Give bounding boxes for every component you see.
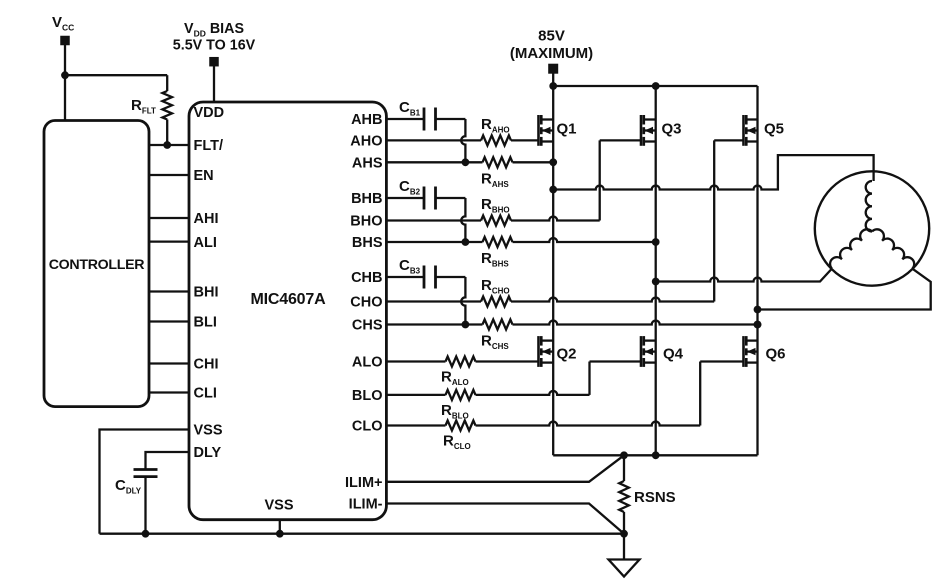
wire BLI controller-chip	[149, 320, 189, 322]
wire RAHO to Q1 gate	[511, 139, 539, 141]
wire RFLT bottom lead	[166, 120, 168, 146]
terminal 85V	[548, 64, 558, 74]
svg-text:ALI: ALI	[194, 235, 217, 251]
wire ALI controller-chip	[149, 240, 189, 242]
wire CHI controller-chip	[149, 362, 189, 364]
svg-text:CLI: CLI	[194, 386, 217, 402]
motor winding left	[830, 229, 872, 268]
svg-text:ILIM-: ILIM-	[349, 497, 383, 513]
wire Q3 gate lead	[600, 139, 641, 141]
controller box	[44, 121, 149, 407]
svg-text:BLI: BLI	[194, 315, 217, 331]
op-amp U1 MIC4607A box	[189, 102, 386, 520]
node phase C tap	[754, 306, 762, 314]
terminal VDD BIAS	[209, 57, 219, 66]
svg-text:FLT/: FLT/	[194, 138, 224, 154]
node RSNS gnd	[620, 530, 628, 538]
transistor Q3	[640, 115, 643, 146]
wire phase A to motor	[553, 155, 873, 189]
resistor RBHO	[481, 216, 511, 226]
svg-text:RSNS: RSNS	[634, 489, 676, 506]
wire DLY	[146, 452, 190, 470]
wire ground stem	[623, 534, 625, 560]
wire phase A vertical	[552, 86, 554, 455]
wire RBHS out	[513, 238, 656, 242]
node BHS switch	[652, 238, 660, 246]
capacitor CDLY	[134, 468, 158, 471]
node CHS switch	[754, 321, 762, 329]
wire BLO lead	[386, 394, 445, 396]
svg-text:MIC4607A: MIC4607A	[251, 291, 327, 308]
wire CDLY down	[144, 477, 146, 534]
wire RBHO out	[511, 217, 600, 221]
svg-text:VSS: VSS	[264, 498, 293, 514]
svg-text:5.5V TO 16V: 5.5V TO 16V	[173, 38, 256, 54]
svg-text:BHO: BHO	[350, 214, 382, 230]
wire phase B vertical	[655, 86, 657, 455]
svg-text:Q6: Q6	[766, 345, 786, 362]
svg-text:(MAXIMUM): (MAXIMUM)	[510, 45, 593, 62]
wire Q6 gate drop	[699, 362, 701, 426]
svg-text:CHS: CHS	[352, 318, 383, 334]
node rail Q3	[652, 82, 660, 90]
wire CHO lead	[386, 300, 481, 302]
node VCC junction	[61, 71, 69, 79]
svg-text:VDD BIAS: VDD BIAS	[184, 21, 244, 39]
wire source rail	[553, 454, 757, 456]
motor M circle	[815, 171, 929, 285]
svg-text:CLO: CLO	[352, 419, 383, 435]
svg-text:EN: EN	[194, 168, 214, 184]
wire RBLO out	[476, 391, 590, 395]
wire RAHS out	[513, 161, 554, 163]
svg-text:CONTROLLER: CONTROLLER	[49, 257, 145, 273]
node Q4 source	[652, 451, 660, 459]
wire BHS lead	[386, 241, 482, 243]
capacitor CB3	[423, 266, 426, 289]
wire 85V rail	[553, 85, 757, 87]
wire CLI controller-chip	[149, 391, 189, 393]
svg-text:CHB: CHB	[351, 270, 382, 286]
resistor RBLO	[446, 390, 476, 400]
wire CLO lead	[386, 424, 445, 426]
svg-text:AHS: AHS	[352, 156, 383, 172]
wire BHO lead	[386, 219, 481, 221]
resistor RALO	[446, 357, 476, 367]
svg-text:AHO: AHO	[350, 134, 382, 150]
node phase B tap	[652, 278, 660, 286]
svg-text:CHI: CHI	[194, 357, 219, 373]
transistor Q5	[742, 115, 745, 146]
resistor RCLO	[446, 421, 476, 431]
wire ALO lead	[386, 360, 445, 362]
wire AHB lead	[386, 118, 424, 120]
wire BHI controller-chip	[149, 290, 189, 292]
resistor RFLT	[162, 91, 172, 119]
svg-text:ILIM+: ILIM+	[345, 475, 382, 491]
wire CB2 to switch node	[436, 197, 466, 199]
node phase A tap	[549, 186, 557, 194]
resistor RCHO	[481, 297, 511, 307]
node CB2 at BHS	[462, 238, 470, 246]
node phase C CHS	[754, 321, 762, 329]
wire phase C to motor	[758, 269, 931, 310]
transistor Q2	[537, 336, 540, 367]
resistor RSNS	[619, 481, 629, 512]
capacitor CB1	[423, 108, 426, 131]
wire RSNS top lead	[623, 455, 625, 481]
wire VCC to RFLT	[65, 74, 167, 76]
wire ground rail	[100, 533, 625, 535]
svg-text:Q4: Q4	[663, 345, 684, 362]
wire RCLO out	[476, 422, 701, 426]
wire ILIM- lead	[386, 504, 624, 534]
resistor RAHO	[481, 135, 511, 145]
terminal VCC	[60, 36, 70, 46]
wire CHS lead	[386, 323, 482, 325]
svg-text:AHI: AHI	[194, 211, 219, 227]
wire VSS bottom pin	[279, 520, 281, 534]
node RSNS top	[620, 451, 628, 459]
svg-text:VDD: VDD	[194, 105, 225, 121]
wire VSS left	[100, 430, 190, 534]
wire RSNS bottom lead	[623, 512, 625, 534]
wire RALO to Q2 gate	[476, 360, 539, 362]
transistor Q4	[640, 336, 643, 367]
wire CB3 to switch node	[436, 276, 466, 278]
svg-text:Q1: Q1	[557, 120, 577, 137]
svg-text:AHB: AHB	[351, 112, 382, 128]
wire CHB lead	[386, 276, 424, 278]
node CB3 at CHS	[462, 321, 470, 329]
svg-text:VSS: VSS	[194, 423, 223, 439]
svg-text:85V: 85V	[538, 28, 565, 45]
wire Q6 gate lead	[700, 360, 743, 362]
svg-text:DLY: DLY	[194, 445, 222, 461]
wire BHB lead	[386, 197, 424, 199]
svg-text:Q5: Q5	[764, 120, 784, 137]
svg-text:CHO: CHO	[350, 295, 382, 311]
node FLT junction	[163, 141, 171, 149]
wire FLT controller-chip	[149, 144, 189, 146]
ground	[609, 560, 640, 577]
node CDLY gnd	[142, 530, 150, 538]
resistor RCHS	[483, 320, 513, 330]
wire CB3 drop	[461, 277, 465, 325]
wire RFLT top lead	[166, 75, 168, 91]
wire CB2 drop	[461, 198, 465, 242]
wire VDD bias down	[213, 66, 215, 102]
wire ILIM+ lead	[386, 455, 624, 482]
wire VCC down	[64, 45, 66, 121]
node AHS switch	[549, 158, 557, 166]
resistor RAHS	[483, 157, 513, 167]
svg-text:BLO: BLO	[352, 388, 383, 404]
capacitor CB2	[423, 187, 426, 210]
wire 85V down	[552, 74, 554, 87]
svg-text:ALO: ALO	[352, 355, 383, 371]
resistor RBHS	[483, 237, 513, 247]
svg-text:BHS: BHS	[352, 235, 383, 251]
wire Q5 gate drop	[713, 140, 715, 301]
wire CB1 to switch node	[436, 118, 466, 120]
motor winding right	[872, 229, 914, 268]
wire AHI controller-chip	[149, 217, 189, 219]
node rail Q1	[549, 82, 557, 90]
transistor Q6	[742, 336, 745, 367]
svg-text:BHB: BHB	[351, 191, 382, 207]
wire Q5 gate lead	[714, 139, 743, 141]
wire EN controller-chip	[149, 174, 189, 176]
wire RCHO out	[511, 298, 714, 302]
wire phase C vertical	[756, 86, 758, 455]
svg-text:Q3: Q3	[662, 120, 682, 137]
wire CB1 drop	[461, 119, 465, 162]
wire RCHS out	[513, 321, 758, 325]
wire phase B to motor	[656, 269, 832, 282]
svg-text:BHI: BHI	[194, 285, 219, 301]
wire Q4 gate drop	[588, 362, 590, 395]
node VSS bottom	[276, 530, 284, 538]
wire Q4 gate lead	[590, 360, 642, 362]
wire AHS lead	[386, 161, 482, 163]
node CB1 at AHS	[462, 158, 470, 166]
wire AHO lead	[386, 139, 481, 141]
transistor Q1	[537, 115, 540, 146]
motor winding top	[866, 181, 872, 231]
svg-text:Q2: Q2	[557, 345, 577, 362]
wire Q3 gate drop	[599, 140, 601, 220]
